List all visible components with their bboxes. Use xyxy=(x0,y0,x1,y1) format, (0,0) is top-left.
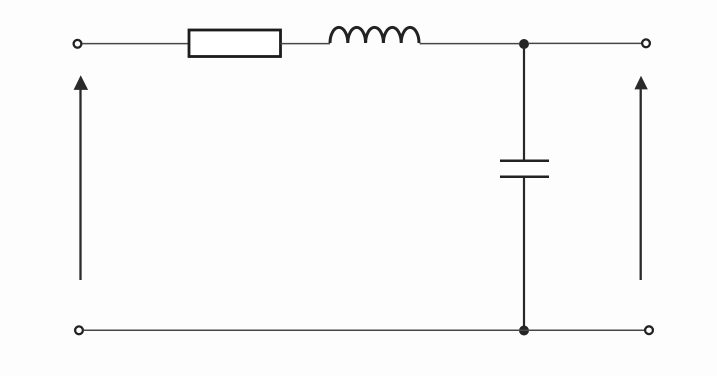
wire resistor to inductor xyxy=(281,43,331,45)
arrow output voltage right xyxy=(634,76,647,280)
terminal top-left xyxy=(74,40,82,48)
node junction bottom xyxy=(519,326,529,336)
node junction top xyxy=(519,39,529,49)
terminal bottom-right xyxy=(645,326,653,334)
inductor xyxy=(330,27,419,43)
wire node to capacitor xyxy=(523,44,525,160)
wire inductor to node xyxy=(420,43,519,45)
arrow input voltage left xyxy=(74,75,89,280)
wire node to terminal top-right xyxy=(529,42,641,44)
resistor xyxy=(189,30,281,57)
terminal bottom-left xyxy=(75,326,83,334)
wire top-left to resistor xyxy=(82,43,189,45)
capacitor xyxy=(500,161,549,177)
wire capacitor to bottom node xyxy=(523,178,525,331)
terminal top-right xyxy=(642,39,650,47)
wire bottom rail xyxy=(84,329,645,331)
